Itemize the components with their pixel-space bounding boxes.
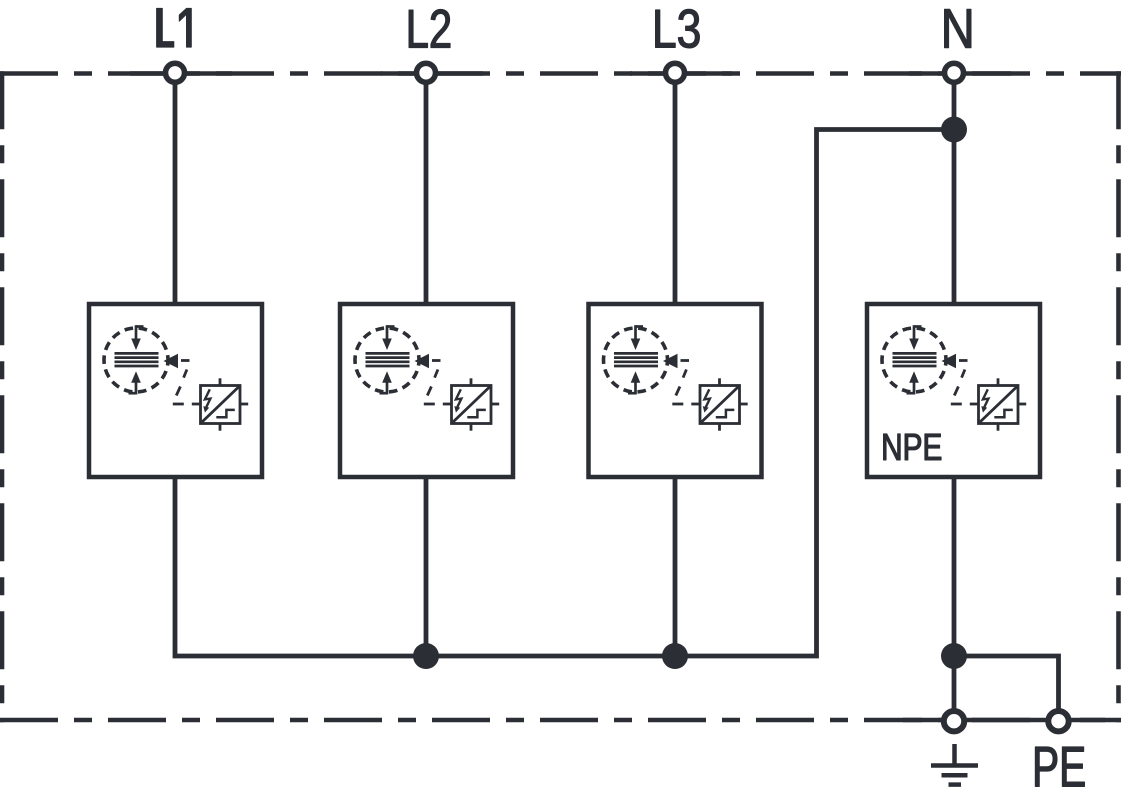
enclosure border right (dash-dot) xyxy=(1116,71,1121,722)
dashed trigger line of module L3 xyxy=(672,361,689,405)
border solid segment at terminal L1 xyxy=(130,71,232,76)
wire L3 terminal to module L3 xyxy=(673,74,678,307)
label L1 xyxy=(157,8,192,47)
top arrow into spark gap of module L1 xyxy=(131,325,143,350)
terminal L3 xyxy=(666,63,685,82)
spark gap electrode stack of module L2 xyxy=(366,353,410,366)
trigger box pins of module N-PE xyxy=(970,378,1026,430)
label L2 xyxy=(409,10,450,48)
trigger box pins of module L2 xyxy=(443,378,499,430)
bottom arrow into spark gap of module N-PE xyxy=(907,371,919,394)
trigger circuit box of module L3 xyxy=(700,386,740,424)
dashed trigger line of module L1 xyxy=(173,361,190,405)
trigger circuit box of module L1 xyxy=(201,386,241,424)
spark gap (dashed circle) of module L3 xyxy=(604,328,668,392)
lightning bolt glyph in trigger box of module L2 xyxy=(454,389,461,412)
wire module L2 to bottom bus xyxy=(424,475,429,656)
surge arrester module L3: outer box xyxy=(589,304,762,477)
top arrow into spark gap of module N-PE xyxy=(909,325,921,350)
trigger circuit box of module L2 xyxy=(452,386,492,424)
spark gap (dashed circle) of module L2 xyxy=(355,328,419,392)
trigger box pins of module L1 xyxy=(192,378,248,430)
terminal N xyxy=(945,63,964,82)
label N xyxy=(945,9,971,47)
wire N terminal to module N-PE xyxy=(952,74,957,307)
wire node N-PE bottom to PE terminal xyxy=(954,656,1059,720)
trigger box pins of module L3 xyxy=(691,378,747,430)
trigger circuit box of module N-PE xyxy=(979,386,1019,424)
step-function glyph in trigger box of module L3 xyxy=(716,410,735,417)
label L3 xyxy=(656,9,700,48)
NPE label inside module N-PE xyxy=(884,434,942,460)
junction node N-PE bottom xyxy=(941,643,967,669)
terminal L1 xyxy=(166,63,185,82)
earth terminal xyxy=(944,711,964,731)
bottom arrow into spark gap of module L1 xyxy=(129,371,141,394)
lightning bolt glyph in trigger box of module L3 xyxy=(703,389,710,412)
spark gap (dashed circle) of module L1 xyxy=(104,328,168,392)
wire L2 terminal to module L2 xyxy=(424,74,429,307)
spark gap electrode stack of module N-PE xyxy=(893,353,937,366)
top arrow into spark gap of module L3 xyxy=(631,325,643,350)
surge arrester module L2: outer box xyxy=(340,304,513,477)
border solid segment at terminal L2 xyxy=(381,71,483,76)
trigger arrow pointing at spark gap of module L3 xyxy=(663,354,678,368)
junction node bus/L2 xyxy=(413,643,439,669)
wire L1 terminal to module L1 xyxy=(173,74,178,307)
surge arrester module L1: outer box xyxy=(89,304,262,477)
wire module L3 to bottom bus xyxy=(673,475,678,656)
border solid segment at terminal N xyxy=(909,71,1011,76)
junction node on N wire xyxy=(941,117,967,143)
surge arrester module N-PE: outer box xyxy=(867,304,1040,477)
trigger arrow pointing at spark gap of module L1 xyxy=(164,354,179,368)
step-function glyph in trigger box of module N-PE xyxy=(994,410,1013,417)
bottom bus from module L1 up to node on N wire xyxy=(175,130,954,657)
enclosure border left (dash-dot) xyxy=(0,71,4,722)
bottom arrow into spark gap of module L3 xyxy=(628,371,640,394)
spark gap (dashed circle) of module N-PE xyxy=(882,328,946,392)
terminal L2 xyxy=(417,63,436,82)
dashed trigger line of module N-PE xyxy=(951,361,968,405)
trigger arrow pointing at spark gap of module N-PE xyxy=(942,354,957,368)
ground symbol xyxy=(931,744,978,785)
step-function glyph in trigger box of module L2 xyxy=(467,410,486,417)
terminal PE xyxy=(1048,711,1068,731)
label PE xyxy=(1035,747,1084,786)
trigger arrow pointing at spark gap of module L2 xyxy=(415,354,430,368)
lightning bolt glyph in trigger box of module L1 xyxy=(203,389,210,412)
enclosure border bottom (dash-dot) xyxy=(0,718,1121,723)
enclosure border top (dash-dot) xyxy=(0,71,1121,76)
border solid segment at earth and PE terminals xyxy=(903,718,1105,723)
spark gap electrode stack of module L1 xyxy=(115,353,159,366)
step-function glyph in trigger box of module L1 xyxy=(216,410,235,417)
wire module N-PE down to earth terminal xyxy=(952,475,957,720)
junction node bus/L3 xyxy=(662,643,688,669)
top arrow into spark gap of module L2 xyxy=(382,325,394,350)
dashed trigger line of module L2 xyxy=(424,361,441,405)
border solid segment at terminal L3 xyxy=(630,71,732,76)
bottom arrow into spark gap of module L2 xyxy=(380,371,392,394)
lightning bolt glyph in trigger box of module N-PE xyxy=(981,389,988,412)
spark gap electrode stack of module L3 xyxy=(614,353,658,366)
